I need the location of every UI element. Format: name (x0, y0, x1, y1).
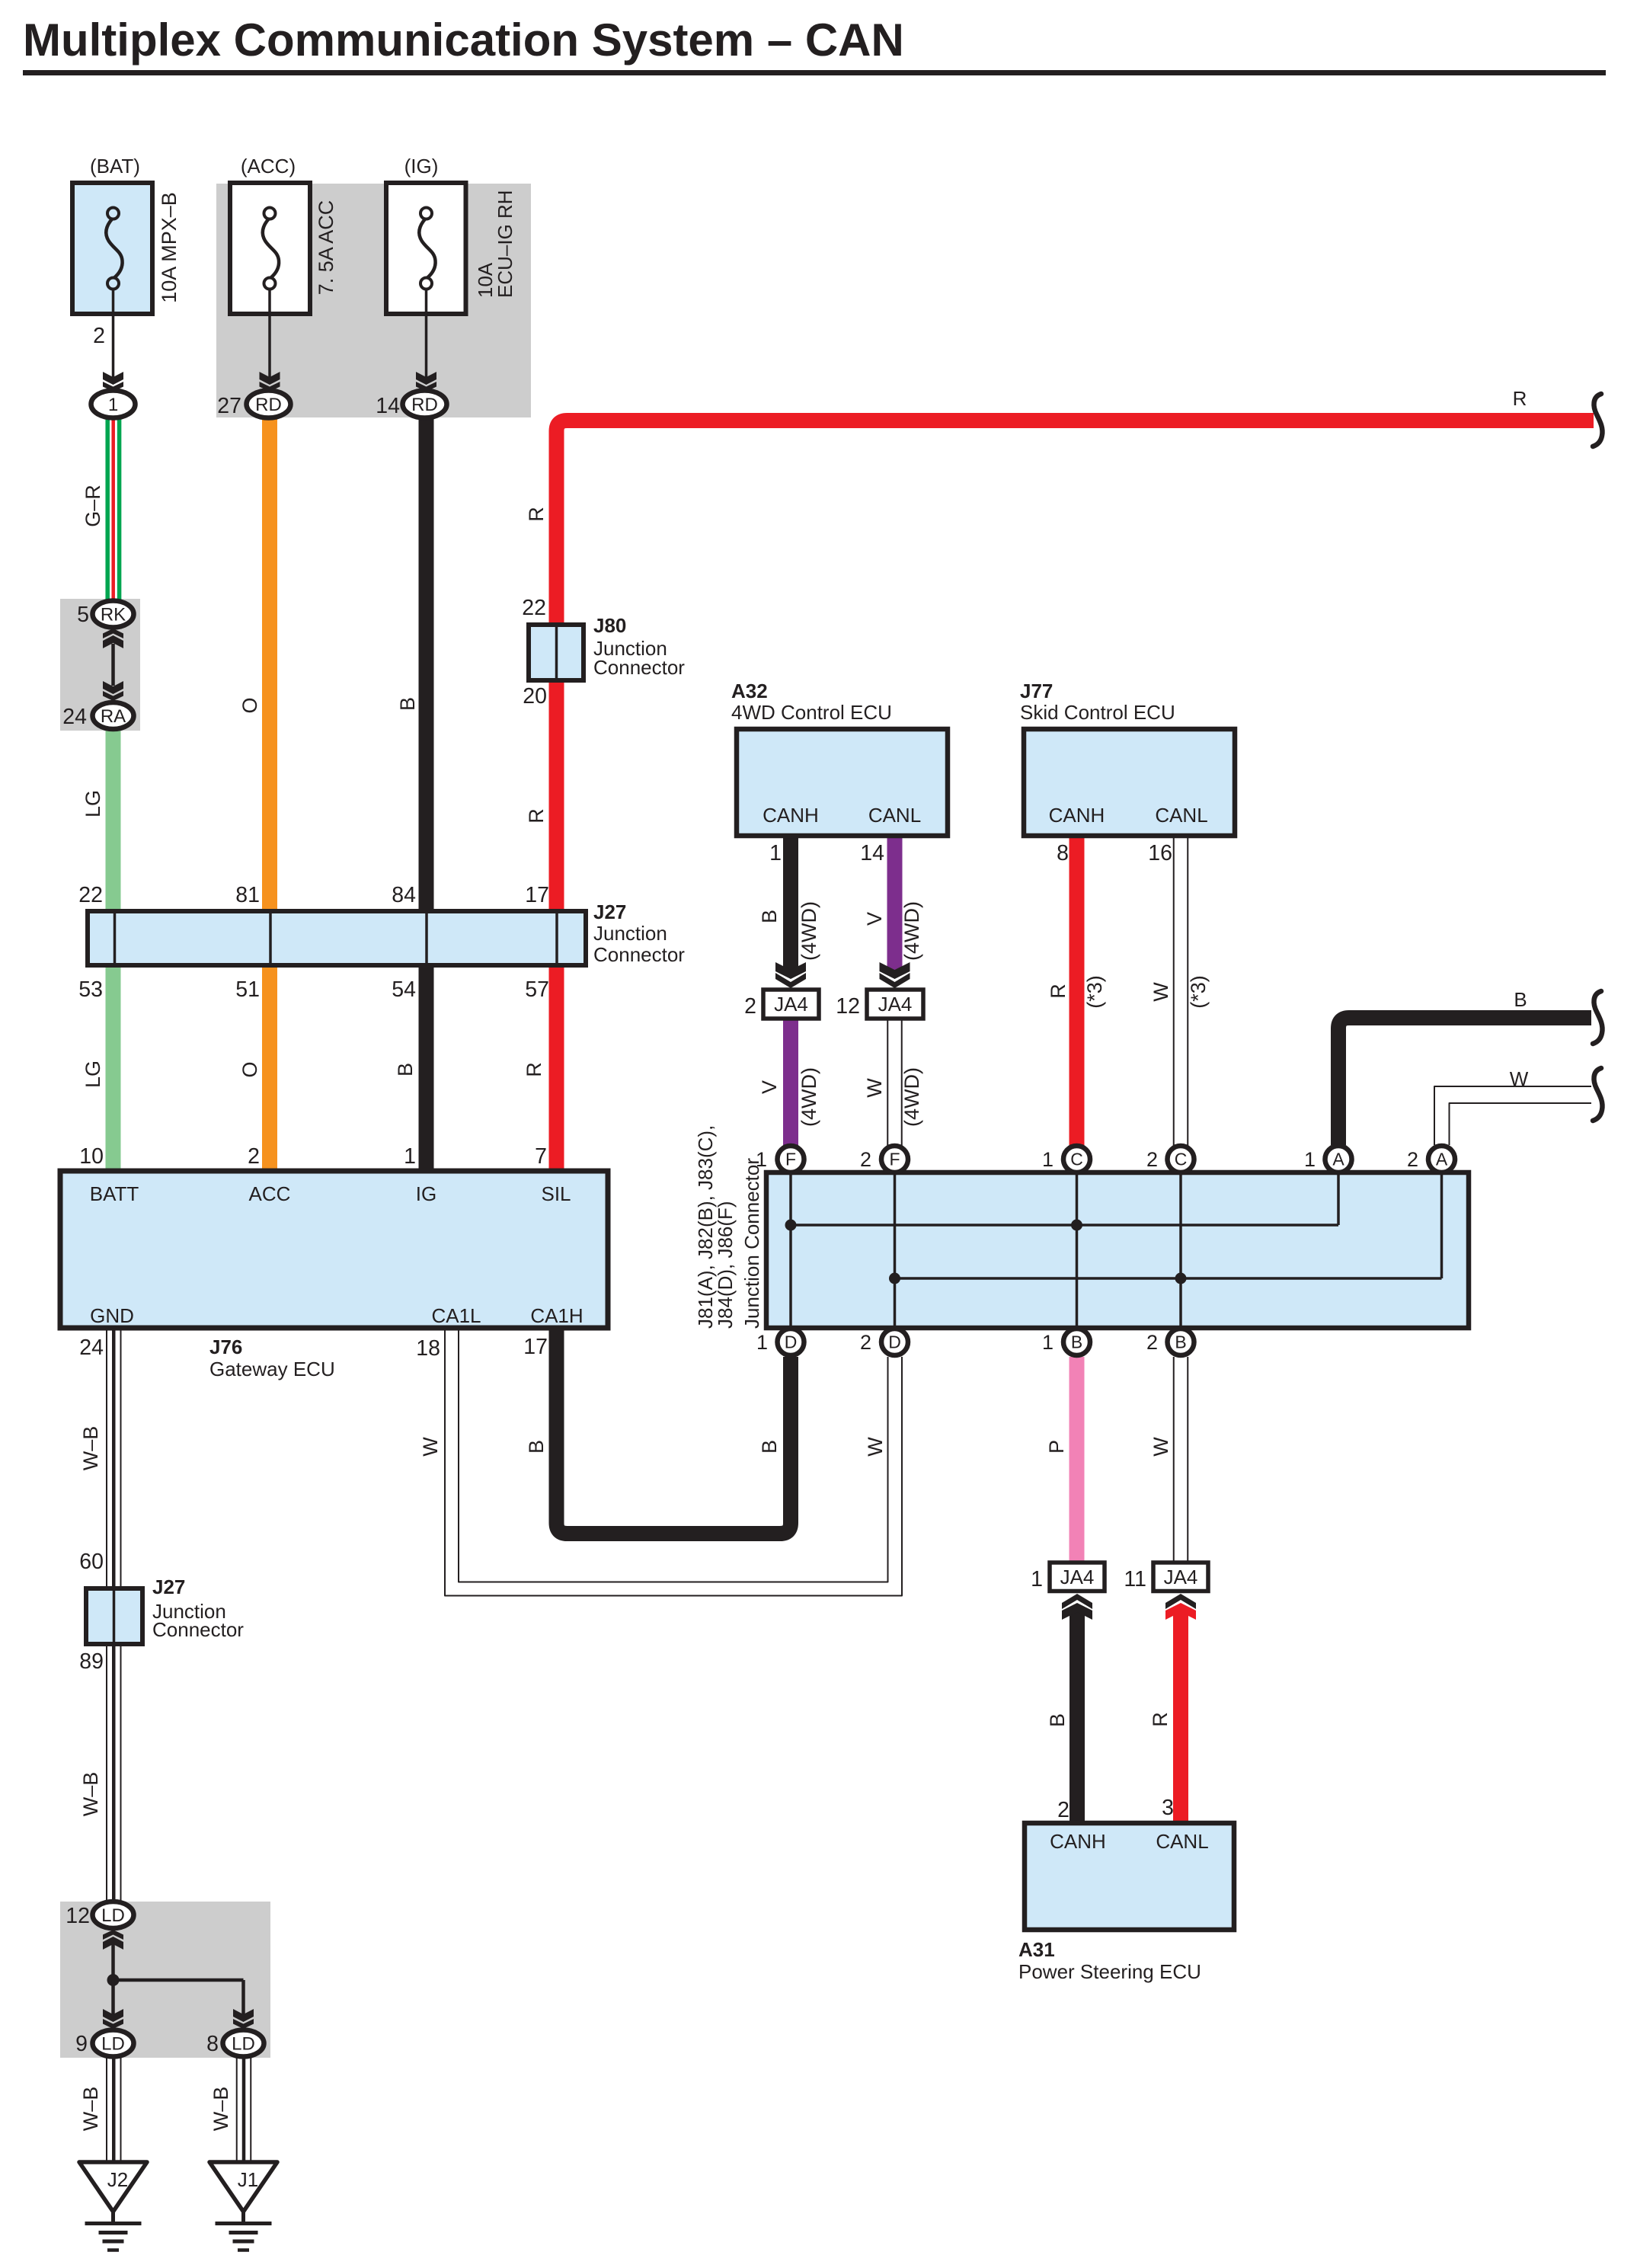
connector JA4 pin12 (867, 990, 923, 1019)
svg-text:14: 14 (860, 841, 884, 865)
pin 2 at F2 (860, 1148, 871, 1171)
pin 1 at lower JA4 (1031, 1567, 1043, 1591)
pin 1 at B1 (1042, 1331, 1053, 1354)
wire B black from J27 to gateway IG (419, 965, 434, 1171)
svg-text:RD: RD (411, 395, 438, 415)
junction pin A1 (1325, 1146, 1352, 1172)
ECU A31 box (1025, 1823, 1234, 1930)
junction pin B1 (1063, 1329, 1090, 1355)
svg-text:A31: A31 (1018, 1938, 1055, 1961)
svg-text:B: B (1071, 1332, 1082, 1352)
label LG lower (82, 1060, 104, 1088)
svg-text:2: 2 (1407, 1148, 1418, 1171)
junction connector J81/J82/J83/J84/J86 box (766, 1160, 1469, 1342)
svg-text:JA4: JA4 (1060, 1566, 1095, 1588)
pin 11 at lower JA4 (1124, 1567, 1146, 1591)
label W-B gnd lower (79, 1772, 102, 1817)
svg-text:CA1L: CA1L (431, 1304, 481, 1327)
label R top right (1513, 387, 1527, 410)
label B on CA1H (525, 1440, 548, 1454)
ground J1 (209, 2162, 277, 2250)
svg-text:J77: J77 (1020, 680, 1053, 702)
label (IG) (404, 155, 439, 178)
junction pin C2 (1168, 1146, 1194, 1172)
connector oval LD 9 (93, 2030, 134, 2057)
label J27 lower (152, 1575, 244, 1641)
svg-text:F: F (785, 1150, 796, 1169)
pin 1 above gateway (404, 1144, 416, 1169)
svg-text:J27: J27 (152, 1575, 185, 1598)
arrow down to LD 9 (103, 2009, 123, 2029)
svg-text:2: 2 (860, 1331, 871, 1354)
svg-text:R: R (525, 507, 548, 522)
wire from fuse IG to connector oval (425, 289, 428, 381)
svg-text:3: 3 (1162, 1796, 1174, 1820)
pin 84 above J27 (392, 883, 416, 907)
svg-text:(4WD): (4WD) (798, 901, 820, 961)
pin 17 below gateway (523, 1335, 548, 1359)
svg-text:A: A (1332, 1150, 1344, 1169)
wire W-B from gateway GND to J27 lower (107, 1328, 121, 1588)
svg-text:89: 89 (79, 1649, 104, 1674)
svg-text:1: 1 (1304, 1148, 1316, 1171)
junction pin A2 (1428, 1146, 1455, 1172)
svg-text:W: W (864, 1437, 887, 1457)
pin 2 at A2 (1407, 1148, 1418, 1171)
svg-text:Connector: Connector (152, 1618, 244, 1641)
junction pin D1 (778, 1329, 804, 1355)
fuse 7.5A ACC (230, 183, 310, 314)
svg-text:Connector: Connector (593, 943, 685, 966)
label W-B gnd upper (79, 1426, 102, 1471)
label 4WD on A32 CANH (798, 901, 820, 961)
svg-text:7: 7 (535, 1144, 547, 1169)
gray panel around RK/RA connectors (60, 599, 140, 731)
connector JA4 pin11 (1153, 1563, 1208, 1591)
label G-R (82, 485, 104, 527)
pin 2 above gateway (248, 1144, 260, 1169)
svg-text:5: 5 (77, 603, 89, 627)
label 10A ECU-IG RH (474, 190, 516, 298)
label BATT (90, 1182, 139, 1205)
svg-text:R: R (1513, 387, 1527, 410)
svg-text:V: V (863, 912, 886, 926)
svg-text:C: C (1070, 1150, 1083, 1169)
pin 14 below A32 (860, 841, 884, 865)
pin 1 at A1 (1304, 1148, 1316, 1171)
junction pin F1 (778, 1146, 804, 1172)
junction connector J27 (88, 911, 586, 965)
label B upper (396, 697, 419, 711)
svg-text:LG: LG (82, 790, 104, 817)
label R below J80 (525, 808, 548, 824)
wire W white from gateway CA1L to junction pin D2 (445, 1328, 902, 1596)
svg-text:P: P (1045, 1440, 1068, 1454)
wire R red from J80 to J27 (549, 680, 564, 911)
svg-text:84: 84 (392, 883, 416, 907)
label 4WD below JA4 F1 (798, 1067, 820, 1127)
svg-text:53: 53 (78, 977, 103, 1002)
connector oval RD 27 (247, 391, 291, 418)
svg-text:1: 1 (1042, 1331, 1053, 1354)
svg-text:A32: A32 (731, 680, 768, 702)
arrow into oval ACC (260, 372, 280, 392)
svg-text:GND: GND (90, 1304, 134, 1327)
svg-text:1: 1 (108, 395, 118, 415)
svg-text:20: 20 (523, 684, 547, 709)
wire W white from junction pin B2 to JA4 (1174, 1357, 1188, 1563)
label CANH A32 (763, 804, 819, 827)
label J77 (1020, 680, 1175, 724)
svg-text:1: 1 (1042, 1148, 1053, 1171)
svg-text:B: B (1046, 1713, 1069, 1727)
title (23, 14, 904, 66)
pin 12 at LD (66, 1904, 90, 1928)
arrow into oval BAT (103, 372, 123, 392)
label (ACC) (241, 155, 296, 178)
svg-text:CANL: CANL (1156, 1830, 1208, 1853)
svg-text:O: O (238, 1061, 261, 1077)
svg-text:81: 81 (235, 883, 260, 907)
pin 1 at D1 (756, 1331, 768, 1354)
pin 2 above A31 (1057, 1798, 1069, 1822)
arrow into oval IG (416, 372, 436, 392)
svg-text:J2: J2 (107, 2168, 128, 2191)
wire from fuse ACC to connector oval (268, 289, 271, 381)
svg-text:2: 2 (93, 324, 105, 348)
svg-text:22: 22 (522, 596, 546, 620)
svg-text:4WD Control ECU: 4WD Control ECU (731, 701, 892, 724)
svg-text:W–B: W–B (79, 1772, 102, 1817)
wire R red horizontal at top with corner down to J80 (557, 421, 1594, 625)
svg-text:Power Steering ECU: Power Steering ECU (1018, 1960, 1201, 1983)
svg-text:1: 1 (756, 1331, 768, 1354)
pin 10 above gateway (79, 1144, 104, 1169)
svg-text:B: B (1514, 988, 1527, 1011)
pin 5 at RK (77, 603, 89, 627)
arrow up to LD 12 (103, 1930, 123, 1950)
svg-text:SIL: SIL (541, 1182, 571, 1205)
label CANL A32 (868, 804, 921, 827)
label CA1H (530, 1304, 583, 1327)
title underline (23, 70, 1606, 75)
label R above J80 (525, 507, 548, 522)
pin 7 above gateway (535, 1144, 547, 1169)
wire O orange from fuse ACC to J27 (262, 415, 277, 911)
label P on B1 wire (1045, 1440, 1068, 1454)
connector oval LD 12 (93, 1902, 134, 1928)
wire from fuse BAT to connector oval (112, 289, 115, 381)
pin 9 at LD (75, 2032, 88, 2056)
svg-text:(4WD): (4WD) (900, 1067, 923, 1127)
svg-text:16: 16 (1148, 841, 1172, 865)
svg-text:W–B: W–B (79, 1426, 102, 1471)
svg-text:G–R: G–R (82, 485, 104, 527)
connector oval RK (93, 601, 134, 628)
svg-text:(*3): (*3) (1083, 975, 1106, 1009)
svg-text:R: R (523, 1062, 545, 1077)
connector JA4 pin2 (763, 990, 819, 1019)
svg-text:1: 1 (1031, 1567, 1043, 1591)
svg-text:1: 1 (404, 1144, 416, 1169)
junction dot LD (107, 1974, 120, 1986)
svg-text:D: D (888, 1332, 901, 1352)
label *3 on J77 CANH (1083, 975, 1106, 1009)
label J76 Gateway ECU (209, 1336, 335, 1380)
svg-text:CANH: CANH (1049, 804, 1105, 827)
svg-text:RA: RA (101, 706, 126, 727)
label SIL (541, 1182, 571, 1205)
label V below JA4 (758, 1080, 781, 1094)
connector oval RD 14 (403, 391, 447, 418)
junction connector J27 lower (86, 1588, 142, 1644)
svg-text:(4WD): (4WD) (900, 901, 923, 961)
svg-text:1: 1 (769, 841, 782, 865)
svg-text:JA4: JA4 (878, 993, 913, 1016)
pin 1 below A32 (769, 841, 782, 865)
svg-text:8: 8 (206, 2032, 219, 2056)
arrow up to RK (103, 629, 123, 648)
svg-text:F: F (889, 1150, 900, 1169)
connector oval RA (93, 702, 134, 729)
label W-B at J2 (79, 2087, 102, 2132)
label O upper (238, 697, 261, 713)
wire B black from JA4 to A31 CANH (1069, 1612, 1085, 1823)
svg-text:54: 54 (392, 977, 416, 1002)
pin 12 at JA4 (836, 994, 860, 1019)
svg-text:B: B (758, 910, 781, 923)
label R on J77 CANH (1047, 984, 1069, 999)
wire W-B from LD 9 to ground J2 (107, 2056, 121, 2162)
pin 20 below J80 (523, 684, 547, 709)
svg-text:7. 5A ACC: 7. 5A ACC (315, 200, 337, 296)
label R lower (523, 1062, 545, 1077)
arrow down to RA (103, 681, 123, 701)
junction pin C1 (1063, 1146, 1090, 1172)
svg-text:CANL: CANL (1155, 804, 1207, 827)
svg-text:(ACC): (ACC) (241, 155, 296, 178)
label W right of corner (864, 1437, 887, 1457)
svg-text:10A MPX–B: 10A MPX–B (158, 192, 181, 303)
label 7.5A ACC (315, 200, 337, 296)
svg-text:57: 57 (525, 977, 549, 1002)
break squiggle on red wire top right (1593, 394, 1603, 446)
pin 54 below J27 (392, 977, 416, 1002)
connector oval LD 8 (223, 2030, 264, 2057)
svg-text:2: 2 (1146, 1148, 1158, 1171)
svg-text:Skid Control ECU: Skid Control ECU (1020, 701, 1175, 724)
svg-text:2: 2 (860, 1148, 871, 1171)
wire W white from J77 CANL to junction pin C2 (1174, 836, 1188, 1146)
svg-text:RK: RK (101, 605, 126, 625)
svg-text:IG: IG (416, 1182, 436, 1205)
svg-text:JA4: JA4 (1164, 1566, 1198, 1588)
svg-text:CANH: CANH (763, 804, 819, 827)
pin 18 below gateway (416, 1336, 440, 1361)
label CANL A31 (1156, 1830, 1208, 1853)
fuse 10A ECU-IG RH (386, 183, 466, 314)
svg-text:17: 17 (523, 1335, 548, 1359)
label R on A31 CANL wire (1149, 1712, 1172, 1727)
fuse 10A MPX-B (BAT) (72, 183, 152, 314)
connector oval 1 (91, 391, 136, 418)
wire R red from JA4 to A31 CANL (1173, 1612, 1188, 1823)
svg-text:ACC: ACC (249, 1182, 291, 1205)
svg-text:2: 2 (248, 1144, 260, 1169)
svg-text:(*3): (*3) (1187, 975, 1210, 1009)
svg-text:O: O (238, 697, 261, 713)
pin 16 below J77 (1148, 841, 1172, 865)
svg-text:2: 2 (744, 994, 756, 1019)
label W on CA1L (419, 1437, 442, 1457)
wire W white from JA4 to junction pin F2 (887, 1019, 902, 1146)
svg-text:J76: J76 (209, 1336, 242, 1358)
label W on B2 wire (1149, 1437, 1172, 1457)
pin 24 at RA (62, 705, 87, 729)
svg-text:1: 1 (756, 1148, 767, 1171)
svg-text:B: B (1175, 1332, 1186, 1352)
svg-text:J84(D), J86(F): J84(D), J86(F) (714, 1201, 737, 1329)
svg-text:Gateway ECU: Gateway ECU (209, 1358, 335, 1380)
wire B black from gateway CA1H to junction pin D1 (557, 1328, 791, 1534)
svg-text:B: B (394, 1063, 417, 1076)
junction pin F2 (881, 1146, 908, 1172)
svg-text:(IG): (IG) (404, 155, 439, 178)
svg-text:LD: LD (101, 2034, 125, 2055)
pin 53 below J27 (78, 977, 103, 1002)
svg-text:B: B (396, 697, 419, 711)
svg-text:RD: RD (255, 395, 282, 415)
label B top right wire (1514, 988, 1527, 1011)
svg-text:2: 2 (1146, 1331, 1158, 1354)
ECU J77 box (1024, 729, 1235, 836)
pin 22 above J27 (78, 883, 103, 907)
wire B black from fuse IG to J27 (419, 415, 434, 911)
svg-text:D: D (785, 1332, 798, 1352)
svg-text:CANH: CANH (1050, 1830, 1106, 1853)
svg-text:9: 9 (75, 2032, 88, 2056)
pin 60 above lower J27 (79, 1550, 104, 1574)
svg-text:CANL: CANL (868, 804, 921, 827)
svg-text:(BAT): (BAT) (90, 155, 140, 178)
svg-text:W: W (1510, 1067, 1529, 1090)
pin 27 (217, 394, 241, 418)
svg-text:V: V (758, 1080, 781, 1094)
svg-text:BATT: BATT (90, 1182, 139, 1205)
pin 51 below J27 (235, 977, 260, 1002)
label J80 (593, 614, 685, 679)
label A32 (731, 680, 892, 724)
svg-text:W: W (1149, 1437, 1172, 1457)
svg-text:LD: LD (101, 1905, 125, 1926)
svg-text:R: R (1149, 1712, 1172, 1727)
label CA1L (431, 1304, 481, 1327)
branch line to LD 8 (114, 1980, 244, 2015)
svg-text:60: 60 (79, 1550, 104, 1574)
label CANL J77 (1155, 804, 1207, 827)
junction pin D2 (881, 1329, 908, 1355)
wire W-B from LD 8 to ground J1 (237, 2056, 251, 2162)
gray panel around LD connectors (60, 1902, 270, 2058)
svg-text:W: W (419, 1437, 442, 1457)
ECU A32 box (737, 729, 948, 836)
break squiggle on black wire right (1593, 991, 1603, 1044)
pin 2 at JA4 (744, 994, 756, 1019)
svg-text:51: 51 (235, 977, 260, 1002)
label *3 on J77 CANL (1187, 975, 1210, 1009)
svg-text:18: 18 (416, 1336, 440, 1361)
svg-text:CA1H: CA1H (530, 1304, 583, 1327)
wire V purple from JA4 to junction pin F1 (783, 1019, 798, 1146)
svg-text:LG: LG (82, 1060, 104, 1088)
pin 8 below J77 (1057, 841, 1069, 865)
pin 81 above J27 (235, 883, 260, 907)
label GND (90, 1304, 134, 1327)
arrow into JA4 F2 (880, 962, 910, 988)
svg-text:R: R (1047, 984, 1069, 999)
svg-text:JA4: JA4 (774, 993, 808, 1016)
svg-text:24: 24 (62, 705, 87, 729)
svg-text:12: 12 (66, 1904, 90, 1928)
svg-text:R: R (525, 808, 548, 824)
wire B black from junction pin A1 up and right to break (1338, 1018, 1591, 1145)
svg-text:J1: J1 (238, 2168, 258, 2191)
svg-text:C: C (1175, 1150, 1188, 1169)
break squiggle on white wire right (1593, 1068, 1603, 1121)
svg-text:B: B (525, 1440, 548, 1454)
pin 2 at C2 (1146, 1148, 1158, 1171)
wire B black from A32 CANH to JA4 (783, 836, 798, 975)
pin 2 at D2 (860, 1331, 871, 1354)
svg-text:J80: J80 (593, 614, 626, 637)
pin 24 below gateway (79, 1336, 104, 1360)
svg-text:(4WD): (4WD) (798, 1067, 820, 1127)
link line LD down (111, 1944, 115, 1980)
wire R red from J77 CANH to junction pin C1 (1069, 836, 1085, 1146)
label 10A MPX-B (158, 192, 181, 303)
label LG upper (82, 790, 104, 817)
pin 14 (376, 394, 400, 418)
label W below JA4 (863, 1078, 886, 1098)
label ACC (249, 1182, 291, 1205)
label 4WD on A32 CANL (900, 901, 923, 961)
gray panel behind ACC and IG fuses (216, 184, 531, 417)
pin 1 at C1 (1042, 1148, 1053, 1171)
svg-text:24: 24 (79, 1336, 104, 1360)
svg-text:Connector: Connector (593, 656, 685, 679)
wire W white from junction pin A2 up and right to break (1434, 1086, 1591, 1145)
arrow up from black wire to JA4 (1062, 1594, 1092, 1620)
wire W-B from J27 lower to LD 12 (107, 1644, 121, 1902)
label B right of corner (758, 1440, 781, 1454)
svg-text:27: 27 (217, 394, 241, 418)
gateway ECU J76 box (60, 1171, 608, 1328)
svg-text:Junction Connector: Junction Connector (740, 1158, 763, 1329)
label W-B at J1 (209, 2087, 232, 2132)
label W on J77 CANL (1149, 982, 1172, 1002)
svg-text:2: 2 (1057, 1798, 1069, 1822)
pin 2 at B2 (1146, 1331, 1158, 1354)
link line RK to RA (111, 644, 115, 686)
label 4WD below JA4 F2 (900, 1067, 923, 1127)
label CANH J77 (1049, 804, 1105, 827)
pin 17 above J27 (525, 883, 549, 907)
label J81 J82 J83 J84 J86 (694, 1125, 763, 1329)
wire LG from J27 to gateway BATT (106, 965, 121, 1171)
junction connector J80 (529, 625, 584, 680)
svg-text:11: 11 (1124, 1567, 1146, 1591)
svg-text:W: W (1149, 982, 1172, 1002)
